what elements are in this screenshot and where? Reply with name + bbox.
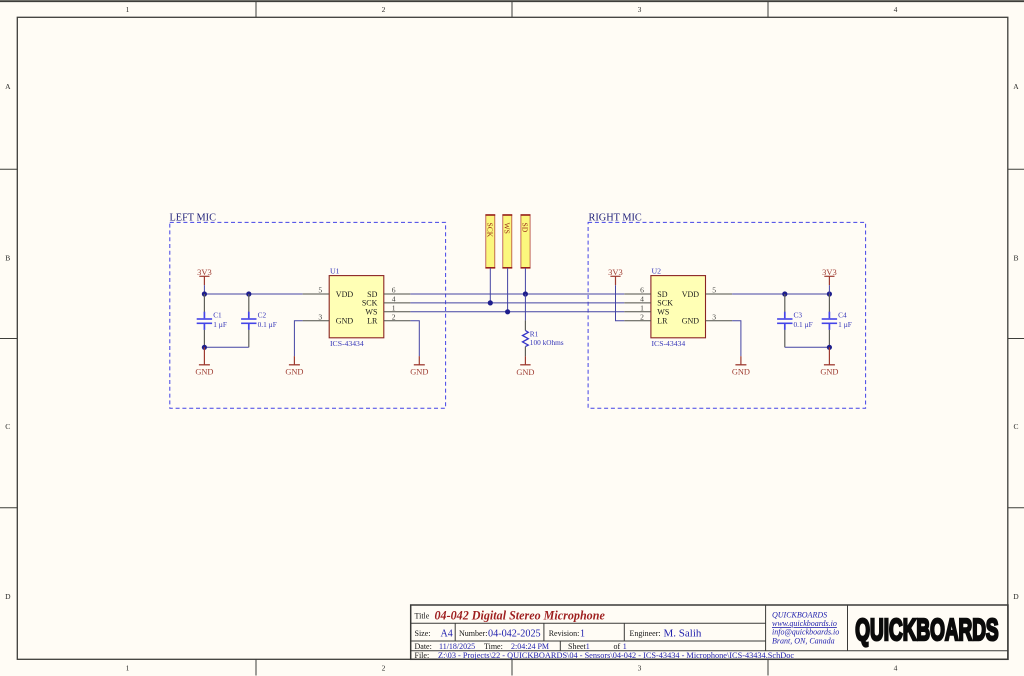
svg-text:1: 1: [126, 5, 130, 14]
svg-text:Number:: Number:: [459, 629, 487, 638]
svg-text:GND: GND: [285, 367, 303, 376]
wire U2 VDD rail: [732, 293, 829, 295]
svg-text:C2: C2: [258, 311, 267, 320]
svg-text:3V3: 3V3: [197, 267, 212, 277]
wire 3V3 stem to VDD rail: [203, 285, 205, 294]
svg-text:4: 4: [894, 664, 898, 673]
ground under U1 pin3: [285, 356, 303, 376]
svg-text:GND: GND: [682, 317, 700, 326]
svg-text:3: 3: [318, 312, 322, 321]
svg-text:info@quickboards.io: info@quickboards.io: [772, 628, 839, 637]
svg-text:D: D: [1013, 592, 1019, 601]
svg-text:3V3: 3V3: [822, 267, 837, 277]
svg-text:A: A: [5, 82, 11, 91]
svg-text:SD: SD: [367, 290, 377, 299]
junction at C4 bottom: [827, 345, 832, 350]
svg-text:GND: GND: [195, 367, 213, 376]
svg-text:B: B: [1013, 254, 1018, 263]
svg-text:6: 6: [392, 286, 396, 295]
junction SCK: [488, 300, 493, 305]
svg-text:3: 3: [712, 312, 716, 321]
svg-text:ICS-43434: ICS-43434: [330, 339, 364, 348]
svg-text:2: 2: [640, 312, 644, 321]
junction SD: [523, 291, 528, 296]
wire U1 LR pin to ground: [410, 321, 419, 357]
svg-text:2: 2: [382, 5, 386, 14]
wire U1 GND pin to ground: [294, 321, 302, 357]
svg-text:GND: GND: [516, 368, 534, 377]
wire SCK port stem: [489, 268, 491, 303]
svg-text:1: 1: [580, 629, 585, 640]
wire SD port stem: [524, 268, 526, 294]
svg-text:LR: LR: [367, 317, 378, 326]
wire left VDD rail: [204, 293, 302, 295]
svg-text:A: A: [1013, 82, 1019, 91]
wire 3V3 stem to rail (right): [828, 285, 830, 294]
U1 pin 5: [303, 285, 330, 294]
U1 pin 4: [384, 295, 411, 304]
U2 pin 2: [624, 312, 651, 321]
svg-text:SCK: SCK: [486, 223, 495, 238]
svg-text:4: 4: [894, 5, 898, 14]
IC U1: [329, 267, 384, 349]
U2 pin 5: [706, 286, 733, 295]
junction at C2 tap: [246, 291, 251, 296]
svg-text:2:04:24 PM: 2:04:24 PM: [511, 642, 549, 651]
svg-text:4: 4: [640, 295, 644, 304]
port SD: [521, 215, 531, 268]
svg-text:SCK: SCK: [362, 299, 378, 308]
capacitor C4: [822, 294, 852, 347]
svg-text:LEFT MIC: LEFT MIC: [170, 212, 217, 223]
wire 3V3 to U2 LR pin: [616, 285, 625, 321]
U2 pin 6: [624, 286, 651, 295]
ground under C4: [820, 347, 838, 376]
resistor R1: [523, 320, 564, 356]
wire SD bus: [410, 293, 624, 295]
svg-text:04-042 Digital Stereo Micropho: 04-042 Digital Stereo Microphone: [435, 609, 606, 623]
junction at C3 tap: [782, 291, 787, 296]
svg-text:1 µF: 1 µF: [838, 320, 852, 329]
svg-text:Revision:: Revision:: [549, 629, 580, 638]
port WS: [502, 215, 512, 268]
junction at C1 bottom: [202, 345, 207, 350]
svg-text:1: 1: [392, 303, 396, 312]
svg-text:6: 6: [640, 286, 644, 295]
wire WS bus: [410, 311, 624, 313]
power 3V3 (right mic LR): [608, 267, 623, 285]
IC U2: [651, 267, 706, 349]
svg-text:GND: GND: [732, 367, 750, 376]
title block: [411, 605, 1008, 659]
svg-text:Time:: Time:: [484, 642, 503, 651]
svg-text:VDD: VDD: [336, 290, 354, 299]
wire WS port stem: [507, 268, 509, 312]
wire SD to R1: [524, 294, 526, 320]
svg-text:M. Salih: M. Salih: [664, 628, 702, 640]
svg-text:Brant, ON, Canada: Brant, ON, Canada: [772, 636, 835, 645]
svg-text:C: C: [1013, 422, 1018, 431]
svg-text:SD: SD: [521, 223, 530, 233]
svg-text:www.quickboards.io: www.quickboards.io: [772, 619, 837, 628]
svg-text:11/18/2025: 11/18/2025: [439, 642, 475, 651]
U2 pin 3: [706, 312, 733, 321]
port SCK: [485, 215, 495, 268]
svg-text:GND: GND: [820, 367, 838, 376]
svg-text:WS: WS: [365, 308, 377, 317]
svg-text:C1: C1: [213, 311, 222, 320]
U1 pin 1: [384, 303, 411, 312]
RIGHT MIC block outline: [588, 212, 866, 408]
ground under U2 pin3: [732, 356, 750, 376]
U2 pin 1: [624, 303, 651, 312]
junction at C4/3V3: [827, 291, 832, 296]
capacitor C3: [777, 294, 813, 347]
svg-text:Engineer:: Engineer:: [630, 629, 661, 638]
svg-text:1: 1: [126, 664, 130, 673]
svg-text:VDD: VDD: [682, 290, 700, 299]
U1 pin 2: [384, 312, 411, 321]
junction WS: [505, 309, 510, 314]
svg-text:100 kOhms: 100 kOhms: [530, 338, 564, 347]
svg-text:Date:: Date:: [415, 642, 432, 651]
ground under C1: [195, 347, 213, 376]
power 3V3 (left): [197, 267, 212, 285]
svg-text:1: 1: [586, 642, 590, 651]
svg-text:C3: C3: [794, 311, 803, 320]
company info cell: [772, 610, 839, 645]
wire C3-C4 ground rail: [785, 346, 830, 348]
svg-text:B: B: [5, 254, 10, 263]
title block values: [438, 628, 794, 661]
svg-text:SD: SD: [657, 290, 667, 299]
LEFT MIC block outline: [170, 212, 446, 408]
svg-text:ICS-43434: ICS-43434: [652, 339, 686, 348]
svg-text:2: 2: [382, 664, 386, 673]
svg-text:QUICKBOARDS: QUICKBOARDS: [855, 614, 998, 648]
svg-text:1: 1: [640, 303, 644, 312]
svg-text:Size:: Size:: [415, 629, 431, 638]
svg-text:A4: A4: [441, 629, 453, 640]
svg-text:of: of: [614, 642, 621, 651]
svg-text:Title: Title: [415, 612, 430, 621]
svg-text:WS: WS: [657, 308, 669, 317]
svg-text:QUICKBOARDS: QUICKBOARDS: [772, 610, 827, 619]
svg-text:Z:\03 - Projects\22 - QUICKBOA: Z:\03 - Projects\22 - QUICKBOARDS\04 - S…: [438, 651, 794, 660]
svg-text:SCK: SCK: [657, 299, 673, 308]
U1 pin 6: [384, 286, 411, 295]
svg-text:File:: File:: [415, 651, 430, 660]
U1 pin 3: [303, 312, 330, 321]
junction at 3V3/C1: [202, 291, 207, 296]
svg-text:D: D: [5, 592, 11, 601]
svg-text:2: 2: [392, 312, 396, 321]
wire C1-C2 ground rail: [204, 346, 248, 348]
U2 pin 4: [624, 295, 651, 304]
svg-text:RIGHT MIC: RIGHT MIC: [589, 212, 642, 223]
svg-text:0.1 µF: 0.1 µF: [794, 320, 813, 329]
svg-text:GND: GND: [410, 367, 428, 376]
svg-text:3: 3: [638, 664, 642, 673]
power 3V3 (right rail): [822, 267, 837, 285]
svg-text:3: 3: [638, 5, 642, 14]
svg-text:04-042-2025: 04-042-2025: [488, 629, 541, 640]
svg-text:Sheet: Sheet: [568, 642, 587, 651]
svg-text:1: 1: [623, 642, 627, 651]
svg-text:5: 5: [318, 285, 322, 294]
svg-text:0.1 µF: 0.1 µF: [258, 320, 277, 329]
ground under U1 LR: [410, 356, 428, 376]
svg-text:U1: U1: [330, 267, 340, 276]
svg-text:5: 5: [712, 286, 716, 295]
svg-text:C: C: [5, 422, 10, 431]
svg-text:GND: GND: [336, 317, 354, 326]
SCHEMATIC: [195, 215, 852, 377]
title block text: [415, 612, 661, 661]
svg-text:WS: WS: [503, 223, 512, 234]
capacitor C2: [241, 294, 277, 347]
svg-text:C4: C4: [838, 311, 847, 320]
wire SCK bus: [410, 302, 624, 304]
ground under R1: [516, 356, 534, 376]
svg-text:1 µF: 1 µF: [213, 320, 227, 329]
wire U2 GND pin to ground: [732, 321, 741, 357]
svg-text:4: 4: [392, 295, 396, 304]
svg-text:U2: U2: [652, 267, 662, 276]
svg-text:3V3: 3V3: [608, 267, 623, 277]
svg-text:LR: LR: [657, 317, 668, 326]
capacitor C1: [197, 294, 227, 347]
